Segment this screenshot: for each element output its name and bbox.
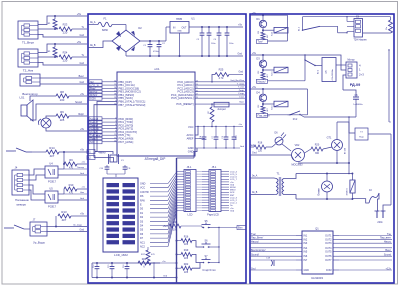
svg-text:R25: R25 <box>219 68 224 72</box>
capacitor C11 <box>107 165 131 177</box>
svg-text:uC1: uC1 <box>154 67 160 71</box>
capacitor C5 box <box>322 58 336 82</box>
svg-text:GND: GND <box>188 146 194 150</box>
svg-text:Тэн/: Тэн/ <box>258 40 263 44</box>
svg-text:U5: U5 <box>49 187 53 191</box>
svg-text:МОС3063: МОС3063 <box>292 164 304 167</box>
svg-text:IN5: IN5 <box>304 251 308 254</box>
spin motor rails <box>296 173 353 201</box>
svg-text:PC817: PC817 <box>48 180 56 184</box>
optocoupler U5 <box>45 187 58 209</box>
svg-text:Gnd: Gnd <box>79 34 84 37</box>
transformer T1 <box>250 172 296 200</box>
svg-text:U4: U4 <box>49 162 53 166</box>
svg-text:Насос/: Насос/ <box>251 241 259 244</box>
svg-text:LCD: LCD <box>187 214 192 217</box>
connector J5.1 <box>196 166 238 217</box>
svg-text:R13: R13 <box>61 210 67 214</box>
svg-text:Ур_воды: Ур_воды <box>73 225 82 227</box>
svg-text:D4: D4 <box>256 91 260 95</box>
button S6 <box>202 240 220 248</box>
svg-text:Старт/Стоп: Старт/Стоп <box>202 269 216 272</box>
svg-text:Gnd: Gnd <box>237 52 242 55</box>
IC Q1 ULN2003 <box>296 227 339 281</box>
gnd rail <box>126 52 243 57</box>
net 0в_В <box>88 41 112 48</box>
svg-text:Затвор: Затвор <box>77 167 85 169</box>
svg-text:ВТ139: ВТ139 <box>345 147 347 154</box>
svg-text:100n: 100n <box>229 43 233 45</box>
svg-text:1К5: 1К5 <box>184 257 189 260</box>
svg-text:OUT2: OUT2 <box>325 238 332 241</box>
svg-text:2+3: 2+3 <box>359 73 364 77</box>
capacitor C1 <box>140 40 166 56</box>
resistor R13 <box>58 210 87 222</box>
op-amp U2 ATmega8 box <box>117 67 195 161</box>
svg-text:Вентилятор/: Вентилятор/ <box>251 249 266 252</box>
svg-text:Т2Н Нагрев: Т2Н Нагрев <box>353 38 367 41</box>
svg-text:R18: R18 <box>258 142 263 145</box>
svg-text:Старт: Старт <box>238 93 244 95</box>
svg-text:R/W: R/W <box>140 199 145 202</box>
svg-text:1К5: 1К5 <box>184 271 189 274</box>
svg-text:+5v: +5v <box>77 12 82 16</box>
svg-text:Sound/: Sound/ <box>251 254 259 257</box>
MCU power pins <box>186 124 244 154</box>
transistor D4 row <box>250 86 308 118</box>
MCU PC pins <box>171 79 245 106</box>
svg-text:0в_В: 0в_В <box>252 192 258 194</box>
svg-text:R20: R20 <box>315 144 320 147</box>
diode D6 <box>272 132 291 152</box>
svg-text:GND: GND <box>140 183 146 186</box>
resistor R18 220 <box>254 142 272 153</box>
resistor R15 <box>163 221 202 232</box>
svg-text:РД-09: РД-09 <box>350 83 361 87</box>
svg-text:GND: GND <box>304 269 310 272</box>
svg-text:IN6: IN6 <box>304 255 308 258</box>
svg-text:Т1_Верх: Т1_Верх <box>22 41 34 45</box>
door switch S1 <box>6 148 46 152</box>
svg-text:PB7_[XTAL2/TOSC2]: PB7_[XTAL2/TOSC2] <box>119 103 146 107</box>
svg-text:Sound: Sound <box>75 101 83 104</box>
power board box <box>250 14 394 283</box>
capacitor C10 <box>99 165 109 174</box>
capacitor C5b <box>225 27 234 56</box>
net Тэн_1кВт <box>250 145 255 147</box>
capacitor C6 <box>200 126 206 149</box>
svg-text:OUT3: OUT3 <box>325 242 332 245</box>
resistor R20 360 <box>305 144 333 155</box>
svg-text:NC2: NC2 <box>140 246 146 249</box>
svg-text:4.7К: 4.7К <box>219 77 224 80</box>
svg-text:CONTR: CONTR <box>140 191 149 194</box>
svg-text:100: 100 <box>173 229 178 232</box>
LCD display LCD_16X2 <box>103 178 138 257</box>
svg-text:Jumper: Jumper <box>217 107 226 111</box>
wire right edge <box>388 49 391 122</box>
svg-text:GND: GND <box>188 150 194 154</box>
svg-text:Prgm/LCD: Prgm/LCD <box>207 214 219 217</box>
svg-text:IN1: IN1 <box>304 235 308 238</box>
capacitor C4 <box>207 27 216 56</box>
svg-text:1К5: 1К5 <box>60 118 65 122</box>
svg-text:PC817: PC817 <box>48 205 56 209</box>
svg-text:R21: R21 <box>142 258 147 261</box>
svg-text:Насос/: Насос/ <box>258 80 266 84</box>
capacitor C8 <box>232 126 238 149</box>
svg-text:1uФ/630v: 1uФ/630v <box>353 103 363 106</box>
svg-text:470нФ/630в: 470нФ/630в <box>331 68 334 80</box>
svg-text:220: 220 <box>258 150 263 153</box>
motor РД-09 <box>305 55 364 90</box>
heater net box <box>337 122 391 205</box>
svg-text:D3: D3 <box>256 57 260 61</box>
svg-text:IN4: IN4 <box>304 247 308 250</box>
wire divider vertical <box>177 151 195 283</box>
svg-text:R8: R8 <box>60 90 64 94</box>
svg-text:PD7_[AIN1]: PD7_[AIN1] <box>119 140 134 144</box>
LCD pin wires <box>140 172 177 249</box>
svg-text:IN2: IN2 <box>304 238 308 241</box>
svg-text:R9: R9 <box>69 158 73 162</box>
svg-text:OUT: OUT <box>181 27 187 30</box>
svg-text:OUT1: OUT1 <box>325 235 332 238</box>
varistor VDR1 <box>347 174 366 199</box>
capacitor C7 <box>212 126 218 149</box>
water switch S2 <box>4 225 30 229</box>
svg-text:R19: R19 <box>184 249 189 252</box>
resistor R7 <box>208 103 214 127</box>
capacitor C18 <box>266 258 274 266</box>
resistor R19 <box>176 249 203 262</box>
svg-text:Положение: Положение <box>15 198 29 202</box>
svg-text:AREF: AREF <box>187 137 194 141</box>
svg-text:Gnd: Gnd <box>252 152 257 155</box>
svg-text:ULN2003: ULN2003 <box>311 276 323 280</box>
svg-text:Gnd: Gnd <box>251 268 256 270</box>
gnd rail right box <box>250 152 294 160</box>
svg-text:VD2: VD2 <box>295 144 300 147</box>
button S5 <box>202 220 247 263</box>
svg-text:VCC: VCC <box>140 187 145 190</box>
resistor R14 <box>46 146 87 164</box>
svg-text:OUT4: OUT4 <box>325 247 332 250</box>
svg-text:0в_В: 0в_В <box>90 44 96 47</box>
resistor R10 <box>58 183 87 200</box>
svg-text:J5.1: J5.1 <box>212 166 217 169</box>
svg-text:Вкл: Вкл <box>238 226 243 230</box>
svg-text:Пар_Вент/: Пар_Вент/ <box>251 237 264 240</box>
svg-text:COM: COM <box>326 269 332 272</box>
heater connector S8 <box>303 16 391 42</box>
svg-text:OUT5: OUT5 <box>325 251 332 254</box>
capacitor C15 <box>108 263 114 278</box>
optotriac VD2 MOC3063 <box>292 144 305 167</box>
button S7 <box>202 255 220 272</box>
svg-text:IN: IN <box>173 27 176 30</box>
triac GT1 <box>327 122 347 163</box>
lamp HL1 <box>38 110 87 131</box>
svg-text:Gnd: Gnd <box>79 81 84 84</box>
connector J6.1 <box>177 166 196 217</box>
net x2 <box>87 156 95 160</box>
MCU PB6 PB7 crystal wires <box>94 101 117 157</box>
relay contact К3.2 <box>288 111 305 121</box>
svg-text:Вент: Вент <box>79 75 85 78</box>
svg-text:Мотор: Мотор <box>347 59 355 62</box>
resistor R25 <box>195 68 245 105</box>
svg-text:Лифт: Лифт <box>239 89 244 92</box>
svg-text:R6: R6 <box>60 110 64 114</box>
svg-text:IN3: IN3 <box>304 242 308 245</box>
svg-text:NC: NC <box>90 140 94 144</box>
svg-text:390К70: 390К70 <box>347 188 349 196</box>
svg-text:Пар_вент/: Пар_вент/ <box>258 114 270 118</box>
resistor R27 heater <box>363 17 393 33</box>
capacitor C16 <box>123 263 129 278</box>
ULN input wires <box>250 233 296 260</box>
MCU PD pins <box>89 117 137 144</box>
capacitor C9 <box>222 126 228 149</box>
svg-text:ВА50: ВА50 <box>102 29 108 32</box>
connector J7 <box>30 216 87 245</box>
svg-text:Gnd: Gnd <box>238 71 243 74</box>
svg-text:R23: R23 <box>63 23 68 27</box>
fuse F1 <box>98 17 126 33</box>
connector J4 <box>12 166 45 207</box>
svg-text:Sound: Sound <box>384 254 392 257</box>
svg-text:Вентилятор: Вентилятор <box>22 92 38 96</box>
main board box <box>88 14 246 283</box>
svg-text:J6.1: J6.1 <box>187 166 192 169</box>
resistor R16 <box>176 235 203 247</box>
svg-text:VCC: VCC <box>188 125 194 129</box>
svg-text:К3.2: К3.2 <box>293 119 298 121</box>
svg-text:PC5_[ADC5/SCL]: PC5_[ADC5/SCL] <box>171 96 193 100</box>
svg-text:AVCC: AVCC <box>186 133 193 137</box>
svg-text:NC1: NC1 <box>140 241 146 244</box>
svg-text:Низ: Низ <box>80 192 84 194</box>
svg-text:Вент: Вент <box>385 249 391 252</box>
svg-text:4К7: 4К7 <box>50 154 55 158</box>
svg-text:К2.2: К2.2 <box>318 69 320 74</box>
svg-text:Ур_Воды: Ур_Воды <box>33 241 45 245</box>
plug 220v <box>375 205 392 224</box>
svg-text:0в_А: 0в_А <box>90 21 96 24</box>
bottom cap rail <box>92 262 178 279</box>
net 0в_А <box>88 21 98 25</box>
resistor R21 <box>138 258 178 278</box>
svg-text:Стоп: Стоп <box>239 96 245 98</box>
ULN gnd wire <box>250 268 296 270</box>
resistor R17 <box>141 247 155 263</box>
MCU PB pins <box>89 80 146 107</box>
svg-text:LCD_16X2: LCD_16X2 <box>114 253 128 257</box>
svg-text:Лифт: Лифт <box>78 113 85 116</box>
svg-text:360: 360 <box>315 152 320 155</box>
svg-text:100n: 100n <box>211 43 215 45</box>
svg-text:220: 220 <box>63 59 68 63</box>
svg-text:RS: RS <box>140 195 144 198</box>
svg-text:Насос: Насос <box>384 241 392 244</box>
svg-text:PC6_[RESET]: PC6_[RESET] <box>176 102 193 106</box>
svg-text:Gnd: Gnd <box>79 229 84 232</box>
svg-text:Прог: Прог <box>239 102 244 104</box>
crystal X1 4MHz <box>94 151 124 165</box>
svg-text:R10: R10 <box>69 183 74 187</box>
resistor R9 <box>58 158 87 175</box>
svg-text:Т_верх: Т_верх <box>237 83 245 85</box>
svg-text:4MHz: 4MHz <box>98 151 106 155</box>
fuse F2 <box>366 190 379 211</box>
capacitor C5a <box>213 27 221 56</box>
svg-text:затвора: затвора <box>16 204 26 207</box>
svg-text:4К7: 4К7 <box>62 218 67 222</box>
svg-text:+12v: +12v <box>386 267 392 270</box>
sensor T1_Верх <box>18 12 87 45</box>
sensor T2_Низ <box>18 40 87 73</box>
svg-text:Rн: Rн <box>386 27 388 30</box>
svg-text:4700u: 4700u <box>153 51 159 53</box>
resistor R22 <box>176 263 201 274</box>
bridge rectifier D2 <box>112 26 142 52</box>
svg-text:R15: R15 <box>173 221 178 224</box>
svg-text:Пар_вент: Пар_вент <box>380 237 392 240</box>
jumper JP1 <box>214 102 244 111</box>
capacitor C14 <box>93 263 99 278</box>
svg-text:R14: R14 <box>49 146 55 150</box>
capacitor C3 <box>196 27 204 56</box>
svg-text:GND: GND <box>177 31 182 33</box>
relay contact К2.2 <box>304 54 322 74</box>
svg-text:IN7: IN7 <box>304 259 308 262</box>
svg-text:LS1: LS1 <box>20 96 25 100</box>
svg-text:D1: D1 <box>256 17 260 21</box>
svg-text:Отжим: Отжим <box>319 188 321 196</box>
svg-text:10мк: 10мк <box>236 135 238 140</box>
svg-text:Чай_Вкл/Реж: Чай_Вкл/Реж <box>231 79 245 82</box>
svg-text:1К5: 1К5 <box>184 243 189 246</box>
svg-text:R24: R24 <box>63 51 68 55</box>
svg-text:SCK/: SCK/ <box>90 96 96 100</box>
svg-text:ATmega8_DIP: ATmega8_DIP <box>145 157 166 161</box>
svg-text:220v: 220v <box>377 221 383 224</box>
+5v output rail <box>189 23 243 28</box>
bottom rail MOC <box>298 117 350 174</box>
svg-text:Тэн/: Тэн/ <box>251 233 256 236</box>
relay contact К1.2 <box>299 17 348 33</box>
regulator U1 7805 <box>166 17 195 57</box>
svg-text:OUT7: OUT7 <box>325 259 332 262</box>
fan connector J3 <box>20 74 87 96</box>
svg-text:+5v: +5v <box>77 40 82 44</box>
svg-text:Т2_Низ: Т2_Низ <box>23 69 34 73</box>
svg-text:R16: R16 <box>184 235 189 238</box>
svg-text:D2: D2 <box>138 26 142 30</box>
svg-text:100: 100 <box>60 98 65 102</box>
transistor D3 row <box>250 52 305 84</box>
motor Отжим <box>319 174 333 200</box>
svg-text:OUT6: OUT6 <box>325 255 332 258</box>
ULN output wires <box>339 233 392 270</box>
svg-text:0в_А: 0в_А <box>252 175 258 178</box>
optocoupler U4 <box>45 162 58 184</box>
svg-text:Gnd: Gnd <box>79 62 84 65</box>
svg-text:Т_низ: Т_низ <box>238 87 244 89</box>
svg-text:U1: U1 <box>191 17 195 21</box>
net x1 <box>87 150 95 154</box>
svg-text:GT1: GT1 <box>327 137 332 140</box>
svg-text:Q1: Q1 <box>315 227 319 231</box>
capacitor C2 <box>157 41 166 56</box>
svg-text:Тэн: Тэн <box>387 233 392 236</box>
speaker LS1 <box>20 90 87 121</box>
capacitor C6 motor <box>304 90 364 118</box>
svg-text:R22: R22 <box>184 263 189 266</box>
svg-text:7805: 7805 <box>176 17 183 21</box>
transistor D1 row <box>250 12 288 44</box>
svg-text:220: 220 <box>63 31 68 35</box>
